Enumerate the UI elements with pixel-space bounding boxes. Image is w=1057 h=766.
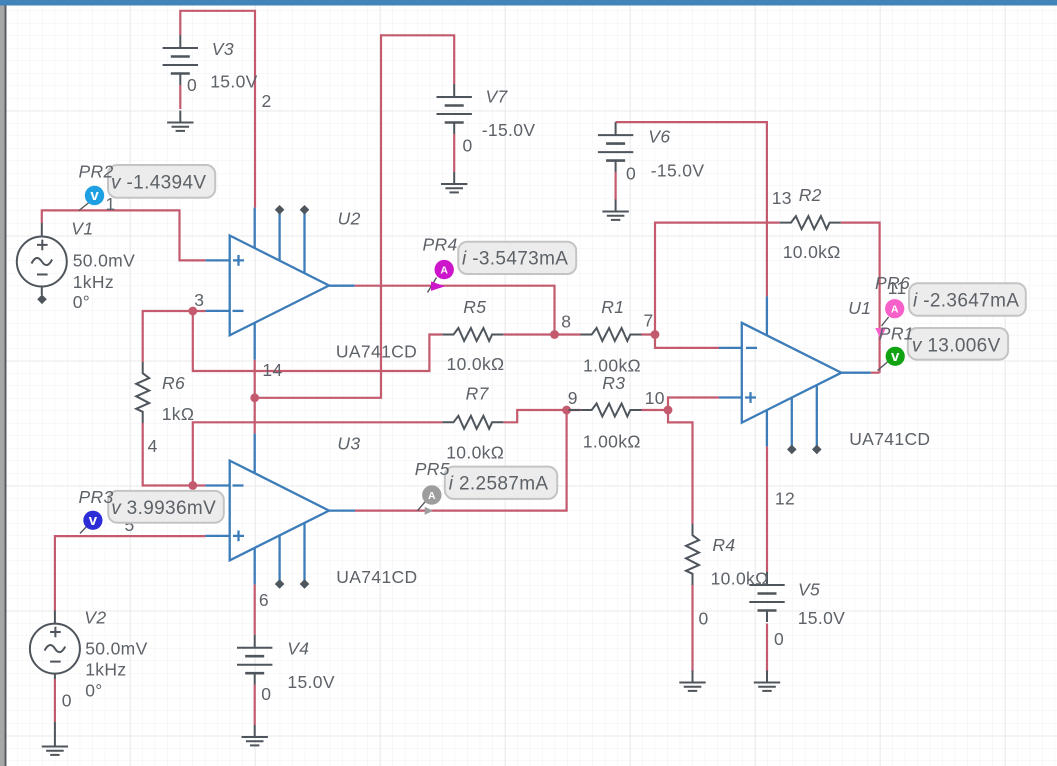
svg-text:10: 10 bbox=[645, 388, 665, 408]
svg-text:UA741CD: UA741CD bbox=[336, 567, 417, 587]
svg-text:v: v bbox=[90, 187, 99, 204]
svg-text:12: 12 bbox=[775, 488, 795, 508]
svg-text:10.0kΩ: 10.0kΩ bbox=[447, 354, 505, 374]
svg-text:R1: R1 bbox=[601, 297, 624, 317]
svg-text:V4: V4 bbox=[287, 639, 309, 659]
svg-text:PR2: PR2 bbox=[79, 162, 114, 182]
svg-text:U3: U3 bbox=[337, 434, 360, 454]
svg-text:UA741CD: UA741CD bbox=[849, 429, 930, 449]
svg-text:PR6: PR6 bbox=[875, 273, 910, 293]
svg-text:i -3.5473mA: i -3.5473mA bbox=[462, 248, 568, 269]
svg-text:V2: V2 bbox=[84, 607, 106, 627]
svg-text:0: 0 bbox=[187, 75, 197, 95]
svg-text:1.00kΩ: 1.00kΩ bbox=[583, 356, 641, 376]
svg-text:0°: 0° bbox=[73, 292, 90, 312]
svg-text:i 2.2587mA: i 2.2587mA bbox=[449, 473, 549, 494]
svg-text:0°: 0° bbox=[85, 681, 102, 701]
svg-text:R4: R4 bbox=[712, 535, 735, 555]
svg-text:-15.0V: -15.0V bbox=[482, 120, 536, 140]
svg-text:0: 0 bbox=[699, 609, 709, 629]
svg-text:50.0mV: 50.0mV bbox=[73, 250, 135, 270]
svg-text:10.0kΩ: 10.0kΩ bbox=[783, 242, 841, 262]
svg-text:PR1: PR1 bbox=[879, 324, 914, 344]
svg-text:R5: R5 bbox=[463, 297, 486, 317]
svg-text:9: 9 bbox=[568, 388, 578, 408]
svg-text:V5: V5 bbox=[798, 580, 820, 600]
svg-text:1kΩ: 1kΩ bbox=[162, 404, 195, 424]
svg-text:V1: V1 bbox=[71, 218, 93, 238]
svg-text:10.0kΩ: 10.0kΩ bbox=[711, 568, 769, 588]
svg-text:V6: V6 bbox=[648, 127, 670, 147]
svg-text:PR5: PR5 bbox=[415, 459, 450, 479]
svg-text:U1: U1 bbox=[848, 298, 871, 318]
svg-text:1kHz: 1kHz bbox=[73, 272, 114, 292]
svg-text:-15.0V: -15.0V bbox=[651, 161, 705, 181]
svg-text:PR4: PR4 bbox=[423, 235, 458, 255]
svg-text:R2: R2 bbox=[799, 185, 822, 205]
svg-text:v 13.006V: v 13.006V bbox=[912, 336, 1001, 357]
svg-text:10.0kΩ: 10.0kΩ bbox=[446, 443, 504, 463]
svg-text:15.0V: 15.0V bbox=[798, 608, 845, 628]
svg-text:0: 0 bbox=[462, 136, 472, 156]
svg-text:A: A bbox=[428, 490, 436, 502]
svg-text:14: 14 bbox=[262, 360, 282, 380]
svg-text:UA741CD: UA741CD bbox=[336, 342, 417, 362]
svg-text:U2: U2 bbox=[338, 208, 361, 228]
svg-text:R3: R3 bbox=[602, 373, 625, 393]
svg-text:0: 0 bbox=[62, 691, 72, 711]
svg-text:15.0V: 15.0V bbox=[287, 672, 334, 692]
svg-text:2: 2 bbox=[261, 91, 271, 111]
svg-text:50.0mV: 50.0mV bbox=[85, 639, 147, 659]
svg-text:1.00kΩ: 1.00kΩ bbox=[583, 432, 641, 452]
svg-text:15.0V: 15.0V bbox=[210, 72, 257, 92]
svg-text:6: 6 bbox=[259, 590, 269, 610]
svg-text:v: v bbox=[89, 512, 98, 529]
svg-text:v 3.9936mV: v 3.9936mV bbox=[111, 498, 216, 519]
svg-text:V3: V3 bbox=[212, 39, 234, 59]
svg-text:3: 3 bbox=[194, 290, 204, 310]
svg-text:13: 13 bbox=[772, 188, 792, 208]
svg-text:i -2.3647mA: i -2.3647mA bbox=[913, 291, 1019, 312]
svg-text:A: A bbox=[891, 304, 899, 316]
svg-text:v -1.4394V: v -1.4394V bbox=[111, 173, 206, 194]
svg-text:PR3: PR3 bbox=[79, 487, 114, 507]
svg-text:0: 0 bbox=[626, 164, 636, 184]
svg-text:R6: R6 bbox=[162, 373, 185, 393]
svg-text:v: v bbox=[891, 348, 900, 365]
svg-text:0: 0 bbox=[261, 684, 271, 704]
svg-text:4: 4 bbox=[148, 436, 158, 456]
svg-text:7: 7 bbox=[643, 311, 653, 331]
svg-text:A: A bbox=[440, 264, 448, 276]
svg-text:0: 0 bbox=[774, 629, 784, 649]
svg-text:1kHz: 1kHz bbox=[85, 660, 126, 680]
svg-text:8: 8 bbox=[561, 311, 571, 331]
svg-text:V7: V7 bbox=[486, 87, 509, 107]
svg-text:R7: R7 bbox=[466, 383, 490, 403]
